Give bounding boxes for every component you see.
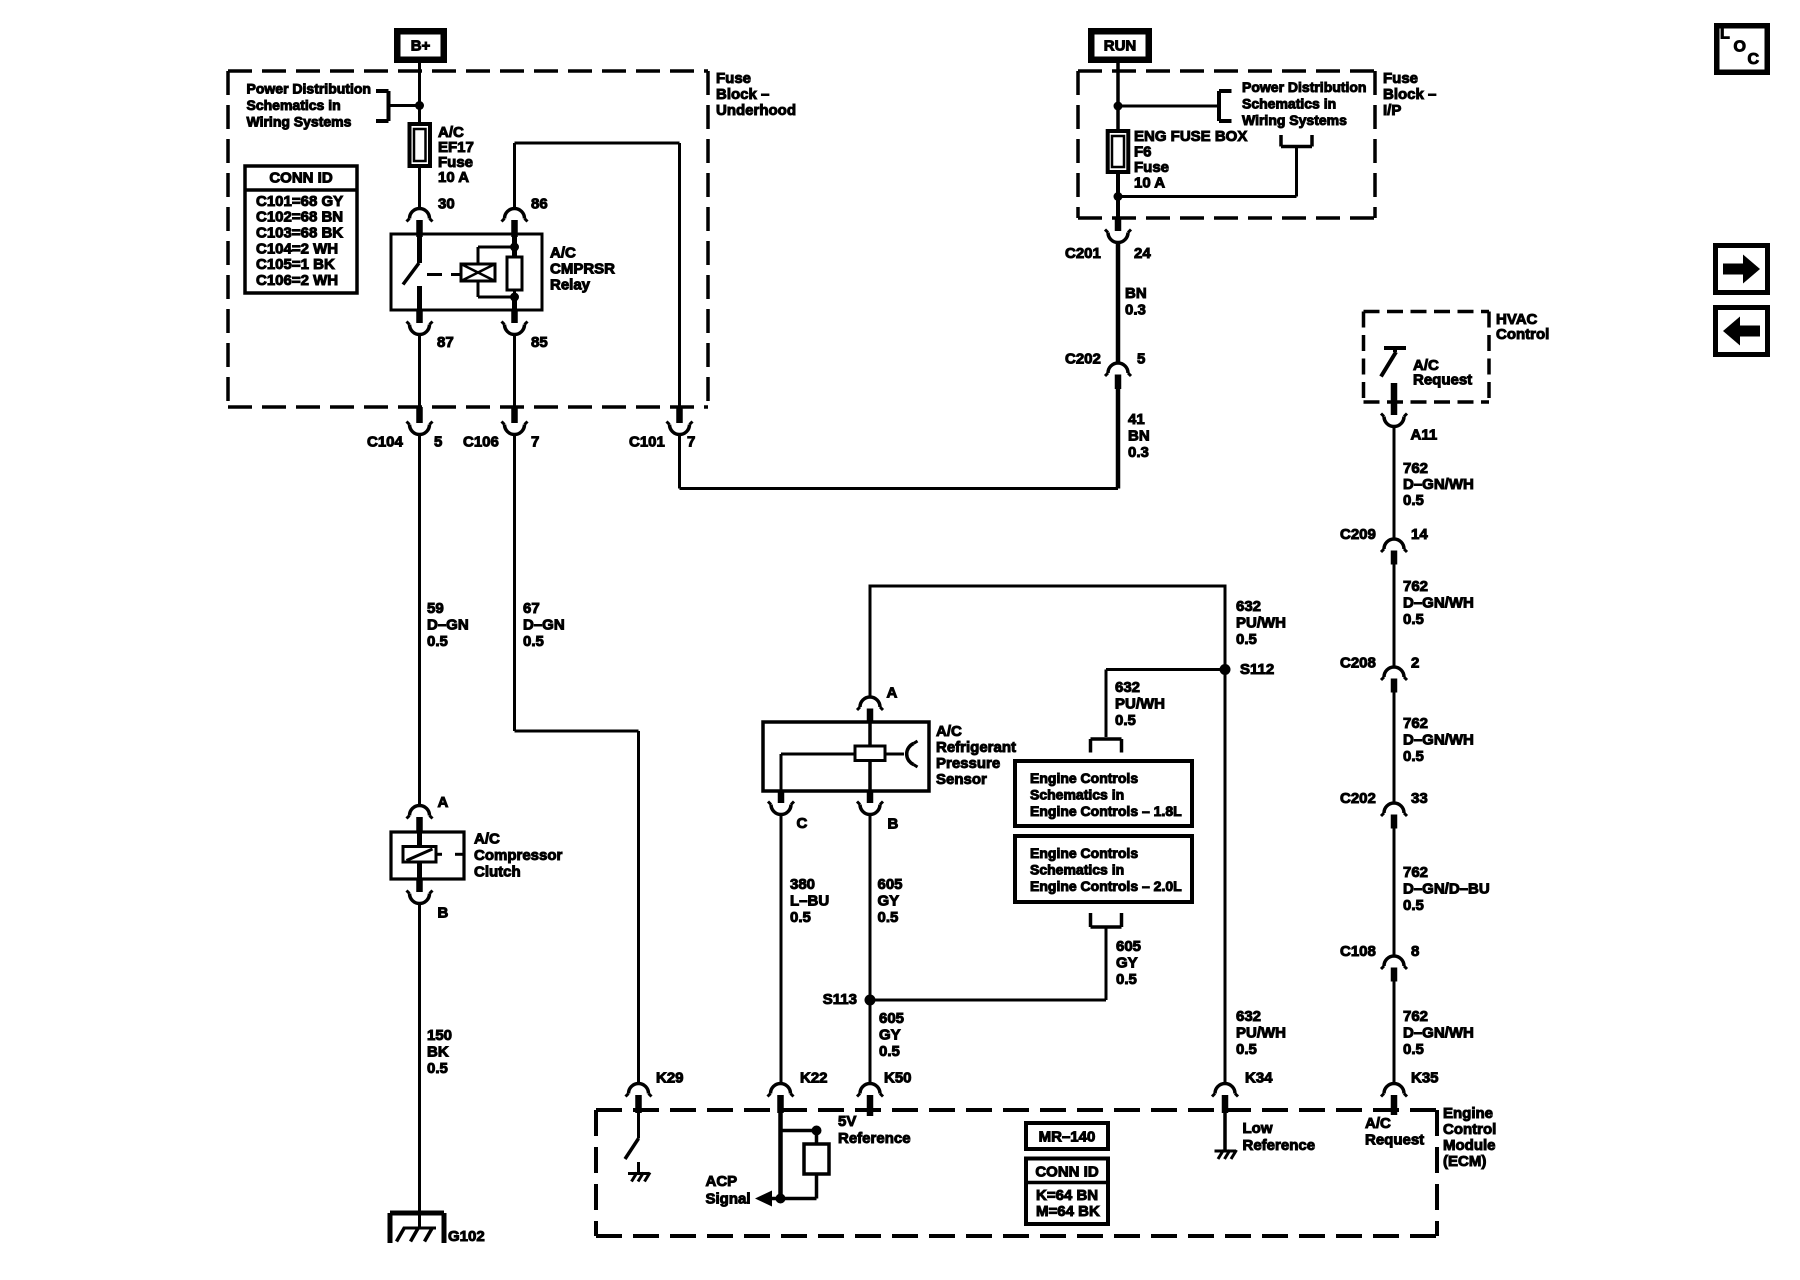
svg-text:0.3: 0.3 [1128,444,1149,461]
svg-text:BN: BN [1128,427,1150,444]
svg-text:A/C: A/C [936,723,962,740]
svg-text:CONN ID: CONN ID [1035,1163,1099,1180]
svg-text:Schematics in: Schematics in [1030,861,1124,877]
svg-text:632: 632 [1236,598,1261,615]
svg-text:C202: C202 [1340,790,1376,807]
svg-text:Pressure: Pressure [936,755,1000,772]
svg-text:10 A: 10 A [438,169,469,186]
svg-text:S113: S113 [823,991,857,1008]
svg-text:D–GN/WH: D–GN/WH [1403,594,1474,611]
svg-text:C209: C209 [1340,526,1376,543]
svg-text:M=64 BK: M=64 BK [1036,1203,1100,1220]
svg-text:K22: K22 [800,1069,828,1086]
svg-text:Clutch: Clutch [474,863,521,880]
svg-text:Module: Module [1443,1137,1496,1154]
svg-text:C105=1 BK: C105=1 BK [256,256,335,273]
svg-text:7: 7 [531,433,539,450]
svg-text:K35: K35 [1411,1069,1439,1086]
svg-text:Schematics in: Schematics in [1030,786,1124,802]
svg-text:0.5: 0.5 [523,633,544,650]
svg-text:Control: Control [1443,1121,1496,1138]
svg-text:Fuse: Fuse [1134,159,1169,176]
svg-text:87: 87 [437,334,454,351]
svg-text:Underhood: Underhood [716,102,796,119]
svg-text:G102: G102 [448,1228,485,1245]
svg-text:D–GN: D–GN [523,616,565,633]
svg-text:BN: BN [1125,285,1147,302]
svg-text:GY: GY [879,1026,901,1043]
svg-text:150: 150 [427,1027,452,1044]
svg-text:CMPRSR: CMPRSR [550,260,615,277]
svg-text:605: 605 [1116,938,1141,955]
svg-text:7: 7 [687,433,695,450]
svg-text:762: 762 [1403,864,1428,881]
svg-text:0.5: 0.5 [1236,1041,1257,1058]
svg-text:380: 380 [790,876,815,893]
svg-text:A/C: A/C [474,830,500,847]
svg-text:D–GN: D–GN [427,616,469,633]
svg-text:A/C: A/C [1365,1115,1391,1132]
svg-text:Reference: Reference [1243,1137,1316,1154]
svg-text:0.5: 0.5 [1403,897,1424,914]
svg-text:C101: C101 [629,433,665,450]
svg-text:762: 762 [1403,460,1428,477]
svg-text:L: L [1720,25,1730,42]
svg-text:Schematics in: Schematics in [247,97,341,113]
svg-text:0.5: 0.5 [1115,712,1136,729]
svg-text:0.5: 0.5 [790,909,811,926]
svg-text:CONN ID: CONN ID [269,169,333,186]
svg-text:Reference: Reference [838,1130,911,1147]
svg-text:5V: 5V [838,1113,856,1130]
svg-text:K50: K50 [884,1069,912,1086]
svg-text:Power Distribution: Power Distribution [247,80,371,96]
svg-text:ENG FUSE BOX: ENG FUSE BOX [1134,128,1247,145]
svg-text:Low: Low [1243,1120,1273,1137]
svg-text:Block –: Block – [716,86,769,103]
svg-text:0.3: 0.3 [1125,301,1146,318]
svg-text:Fuse: Fuse [716,70,751,87]
svg-text:C104: C104 [367,433,404,450]
svg-text:Engine Controls: Engine Controls [1030,770,1138,786]
svg-text:B: B [888,815,899,832]
svg-text:B: B [438,904,449,921]
svg-text:C101=68 GY: C101=68 GY [256,193,343,210]
svg-text:ACP: ACP [706,1173,738,1190]
svg-text:I/P: I/P [1383,102,1401,119]
svg-text:(ECM): (ECM) [1443,1153,1486,1170]
svg-text:Fuse: Fuse [1383,70,1418,87]
svg-text:C106: C106 [463,433,499,450]
svg-text:C108: C108 [1340,943,1376,960]
svg-text:Control: Control [1496,326,1549,343]
svg-text:5: 5 [1137,350,1145,367]
svg-text:0.5: 0.5 [427,633,448,650]
svg-text:Wiring Systems: Wiring Systems [247,114,352,130]
svg-text:30: 30 [438,195,455,212]
svg-text:0.5: 0.5 [427,1060,448,1077]
svg-text:605: 605 [879,1010,904,1027]
svg-text:Wiring Systems: Wiring Systems [1242,112,1347,128]
svg-text:5: 5 [434,433,442,450]
svg-text:C106=2 WH: C106=2 WH [256,272,338,289]
svg-text:K34: K34 [1245,1069,1273,1086]
svg-text:O: O [1734,38,1746,55]
svg-text:D–GN/WH: D–GN/WH [1403,731,1474,748]
svg-text:A/C: A/C [550,244,576,261]
svg-text:Signal: Signal [706,1190,751,1207]
svg-text:Request: Request [1413,371,1472,388]
svg-text:C103=68 BK: C103=68 BK [256,225,343,242]
svg-text:14: 14 [1411,526,1428,543]
svg-text:C202: C202 [1065,350,1101,367]
svg-text:Sensor: Sensor [936,771,987,788]
svg-text:0.5: 0.5 [1403,492,1424,509]
svg-text:C102=68 BN: C102=68 BN [256,209,343,226]
svg-text:Request: Request [1365,1131,1424,1148]
svg-text:MR–140: MR–140 [1039,1128,1096,1145]
svg-text:Engine: Engine [1443,1105,1493,1122]
svg-text:0.5: 0.5 [878,909,899,926]
svg-text:0.5: 0.5 [1403,611,1424,628]
svg-text:K29: K29 [656,1069,684,1086]
svg-text:K=64 BN: K=64 BN [1036,1187,1098,1204]
svg-text:C: C [1748,51,1760,68]
svg-text:24: 24 [1134,245,1151,262]
svg-text:Block –: Block – [1383,86,1436,103]
svg-text:L–BU: L–BU [790,892,829,909]
svg-text:605: 605 [878,876,903,893]
svg-text:PU/WH: PU/WH [1236,614,1286,631]
svg-text:0.5: 0.5 [879,1043,900,1060]
svg-text:GY: GY [878,892,900,909]
svg-text:A: A [887,684,898,701]
svg-text:41: 41 [1128,411,1145,428]
svg-text:762: 762 [1403,715,1428,732]
svg-text:Relay: Relay [550,276,591,293]
svg-text:0.5: 0.5 [1116,971,1137,988]
svg-text:59: 59 [427,600,444,617]
svg-text:F6: F6 [1134,143,1152,160]
svg-text:632: 632 [1115,679,1140,696]
svg-text:Engine Controls: Engine Controls [1030,845,1138,861]
svg-text:C: C [797,815,808,832]
svg-text:A11: A11 [1411,426,1438,443]
svg-text:67: 67 [523,600,540,617]
svg-text:Engine Controls – 2.0L: Engine Controls – 2.0L [1030,878,1182,894]
svg-text:33: 33 [1411,790,1428,807]
svg-text:D–GN/WH: D–GN/WH [1403,476,1474,493]
svg-text:C201: C201 [1065,245,1101,262]
svg-text:S112: S112 [1240,661,1274,678]
svg-text:0.5: 0.5 [1236,631,1257,648]
svg-text:C208: C208 [1340,654,1376,671]
svg-text:C104=2 WH: C104=2 WH [256,240,338,257]
svg-text:B+: B+ [411,37,431,54]
svg-text:Power Distribution: Power Distribution [1242,79,1366,95]
svg-text:PU/WH: PU/WH [1236,1024,1286,1041]
svg-text:632: 632 [1236,1008,1261,1025]
svg-text:Schematics in: Schematics in [1242,95,1336,111]
svg-text:PU/WH: PU/WH [1115,695,1165,712]
svg-text:Refrigerant: Refrigerant [936,739,1016,756]
svg-text:762: 762 [1403,578,1428,595]
svg-text:85: 85 [531,334,548,351]
svg-text:A: A [438,794,449,811]
svg-text:0.5: 0.5 [1403,1041,1424,1058]
svg-text:Engine Controls – 1.8L: Engine Controls – 1.8L [1030,803,1182,819]
svg-text:GY: GY [1116,954,1138,971]
svg-text:86: 86 [531,195,548,212]
svg-text:Compressor: Compressor [474,847,563,864]
svg-text:10 A: 10 A [1134,174,1165,191]
svg-text:RUN: RUN [1104,37,1137,54]
svg-text:8: 8 [1411,943,1419,960]
svg-text:0.5: 0.5 [1403,748,1424,765]
svg-text:BK: BK [427,1043,449,1060]
svg-text:D–GN/D–BU: D–GN/D–BU [1403,880,1490,897]
svg-text:2: 2 [1411,654,1419,671]
svg-text:D–GN/WH: D–GN/WH [1403,1024,1474,1041]
svg-text:762: 762 [1403,1008,1428,1025]
